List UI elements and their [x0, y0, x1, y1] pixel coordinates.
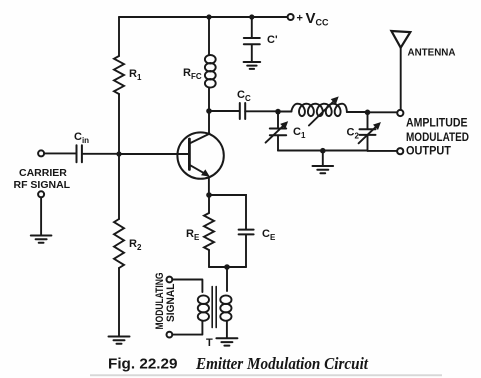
svg-text:OUTPUT: OUTPUT [406, 145, 451, 157]
terminal output top [397, 110, 403, 116]
svg-text:RFC: RFC [183, 67, 202, 81]
wire CE bottom [245, 235, 247, 267]
svg-text:CC: CC [237, 89, 251, 103]
ground carrier input [31, 236, 52, 243]
svg-text:MODULATING: MODULATING [154, 273, 166, 330]
terminal output bottom [397, 148, 403, 154]
wire emitter node to RE [208, 195, 210, 213]
transformer T secondary [220, 295, 231, 304]
transformer T primary [172, 280, 202, 293]
inductor tank coil [291, 104, 347, 116]
wire emitter bottom rail [209, 266, 246, 268]
svg-text:T: T [206, 337, 213, 349]
capacitor C1 (variable) [277, 112, 279, 129]
wire C' bottom [251, 45, 253, 62]
wire input to Cin [44, 152, 75, 154]
transistor Q1 [177, 132, 223, 178]
junction emitter node [206, 192, 212, 198]
terminal +Vcc [288, 14, 294, 20]
svg-text:RF SIGNAL: RF SIGNAL [14, 179, 71, 191]
antenna [391, 31, 410, 48]
svg-text:R1: R1 [129, 68, 142, 82]
wire C' top [251, 17, 253, 38]
junction C2 top [365, 110, 371, 116]
wire top supply rail [119, 16, 288, 18]
junction top rail / C' [249, 14, 254, 19]
wire R1 bottom to R2 top [118, 94, 120, 219]
svg-text:Cin: Cin [74, 131, 89, 145]
capacitor Cin [77, 145, 82, 162]
capacitor C' [244, 38, 260, 44]
junction tank ground [320, 148, 326, 154]
ground C' [244, 62, 261, 69]
junction collector / Cc node [206, 108, 212, 114]
capacitor C2 (variable) [367, 112, 369, 129]
resistor RE [204, 213, 214, 250]
wire Cc left [209, 110, 239, 112]
scan artifact bottom [90, 374, 442, 376]
inductor RFC [205, 55, 216, 64]
svg-text:C': C' [267, 34, 278, 46]
wire tank top right [347, 111, 397, 113]
svg-text:+: + [297, 13, 303, 25]
ground R2 [109, 337, 130, 344]
svg-text:CARRIER: CARRIER [19, 167, 67, 179]
resistor R1 [114, 56, 124, 94]
svg-text:AMPLITUDE: AMPLITUDE [406, 117, 468, 129]
ground transformer [216, 338, 237, 345]
wire R1 branch top [118, 17, 120, 56]
wire input bottom to ground [40, 197, 42, 235]
wire RFC bottom to collector [208, 88, 210, 133]
capacitor Cc [240, 103, 245, 119]
wire R2 bottom [118, 268, 120, 336]
junction base node [116, 151, 121, 156]
resistor R2 [114, 219, 124, 268]
wire tank bottom rail [278, 150, 397, 152]
terminal modulating bottom [167, 332, 173, 338]
svg-text:MODULATED: MODULATED [406, 132, 469, 144]
svg-text:C1: C1 [293, 126, 306, 140]
wire emitter [208, 177, 210, 195]
wire RE bottom [208, 250, 210, 267]
svg-text:RE: RE [186, 228, 200, 242]
svg-text:C2: C2 [347, 127, 360, 141]
arrow variable tank coil [309, 100, 335, 126]
svg-text:SIGNAL: SIGNAL [165, 283, 177, 322]
svg-text:CE: CE [262, 228, 276, 242]
terminal carrier input top [38, 150, 44, 156]
wire RFC top [208, 17, 210, 55]
wire Cc to tank [245, 110, 291, 112]
transformer T core [212, 287, 216, 328]
terminal modulating top [167, 277, 173, 283]
capacitor CE [239, 230, 254, 235]
svg-text:R2: R2 [129, 238, 142, 252]
ground tank [322, 151, 324, 166]
wire node to transformer secondary [226, 267, 228, 291]
svg-text:VCC: VCC [306, 10, 330, 28]
svg-text:Emitter Modulation Circuit: Emitter Modulation Circuit [195, 354, 368, 373]
terminal carrier input bottom [38, 191, 44, 197]
wire antenna lead [400, 48, 402, 110]
svg-text:Fig. 22.29: Fig. 22.29 [108, 356, 178, 373]
junction top rail / RFC [206, 14, 211, 19]
wire CE branch top [209, 195, 246, 229]
svg-text:ANTENNA: ANTENNA [408, 47, 456, 59]
junction C1 top [275, 109, 281, 115]
wire Cin to base [82, 153, 189, 155]
junction emitter bottom node [224, 264, 230, 270]
